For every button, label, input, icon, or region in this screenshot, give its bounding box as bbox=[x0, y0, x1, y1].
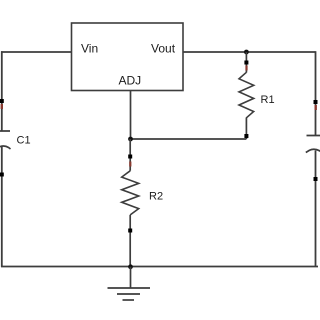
capacitor C1 top plate bbox=[0, 130, 10, 132]
wire R1 bottom stub bbox=[245, 118, 247, 140]
wire right vertical lower bbox=[315, 151, 317, 268]
ground bbox=[108, 288, 151, 300]
pin C2 top terminal bbox=[314, 100, 318, 104]
wire ADJ to R2 bbox=[129, 139, 131, 171]
wire right vertical upper bbox=[315, 51, 317, 135]
wire output horizontal from Vout bbox=[183, 51, 316, 53]
wire left vertical upper bbox=[1, 51, 3, 131]
pin C1 bottom terminal bbox=[0, 173, 4, 177]
pin C1 top terminal bbox=[0, 99, 4, 103]
pin R1 top terminal bbox=[244, 61, 248, 65]
capacitor C2 top plate bbox=[307, 135, 320, 137]
pin number mark red bbox=[129, 162, 131, 167]
pin number mark red bbox=[315, 105, 317, 110]
svg-text:Vout: Vout bbox=[151, 42, 176, 56]
resistor R2 bbox=[122, 171, 139, 215]
svg-text:Vin: Vin bbox=[81, 42, 98, 56]
junction node ADJ bbox=[128, 137, 133, 142]
junction node ground bbox=[128, 264, 133, 269]
pin number mark red bbox=[245, 66, 247, 71]
svg-text:ADJ: ADJ bbox=[119, 74, 142, 88]
pin R1 bottom terminal bbox=[244, 134, 248, 138]
junction node at R1 top bbox=[244, 50, 249, 55]
pin R2 top terminal bbox=[128, 155, 132, 159]
wire ADJ pin vertical bbox=[130, 91, 132, 140]
resistor R1 bbox=[239, 72, 254, 118]
pin R2 bottom terminal bbox=[128, 229, 132, 233]
wire R1 bottom to ADJ node bbox=[131, 138, 247, 140]
svg-text:C1: C1 bbox=[17, 135, 31, 147]
svg-text:R1: R1 bbox=[261, 94, 275, 106]
wire R2 bottom stub bbox=[129, 215, 131, 267]
wire R1 top stub bbox=[245, 52, 247, 73]
capacitor C2 curved plate bbox=[306, 149, 320, 153]
pin C2 bottom terminal bbox=[314, 177, 318, 181]
wire ground stub bbox=[130, 267, 132, 288]
svg-text:R2: R2 bbox=[149, 191, 163, 203]
capacitor C1 curved plate bbox=[0, 146, 11, 150]
pin number mark red bbox=[1, 104, 3, 109]
wire input horizontal to Vin bbox=[1, 51, 72, 53]
wire bottom bus bbox=[1, 266, 318, 268]
wire left vertical lower bbox=[1, 147, 3, 268]
op-amp U1 regulator box bbox=[72, 23, 184, 91]
